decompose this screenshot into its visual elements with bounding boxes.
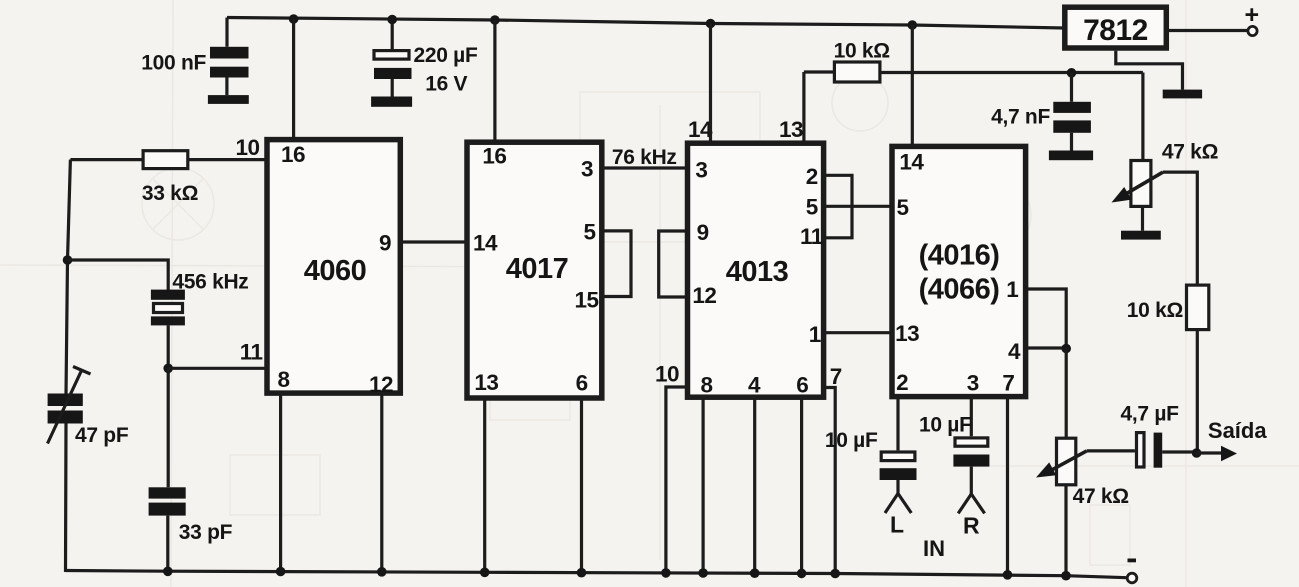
- label Saida: [1208, 418, 1267, 443]
- wire U3 loop pins 9-12: [659, 231, 688, 297]
- junction bottom rail U3 pin6: [797, 569, 807, 579]
- label 4,7 uF: [1121, 403, 1180, 426]
- junction top rail A: [289, 14, 299, 24]
- U4 pin label 1: [1006, 277, 1018, 302]
- junction bottom rail 33pF: [163, 567, 173, 577]
- wire P2 wiper to C out: [1087, 449, 1135, 452]
- svg-text:2: 2: [806, 164, 818, 189]
- wire U4 pin7 down: [1006, 396, 1009, 575]
- svg-text:3: 3: [695, 158, 707, 183]
- svg-text:11: 11: [800, 224, 823, 249]
- svg-text:7: 7: [830, 364, 842, 389]
- U1 pin label 9: [379, 231, 391, 256]
- U1 pin label 16: [281, 142, 305, 167]
- svg-text:100 nF: 100 nF: [141, 52, 206, 75]
- terminal - (open circle): [1127, 573, 1137, 583]
- junction pin1/pin4 node: [1061, 344, 1071, 354]
- svg-text:3: 3: [581, 157, 593, 182]
- wire U1 pin 12 down: [380, 394, 383, 572]
- junction bottom rail U3 pin4: [750, 568, 760, 578]
- svg-text:IN: IN: [923, 536, 945, 561]
- wire U4 pin1 right and down: [1024, 289, 1066, 349]
- wire U1 pin 11: [168, 367, 266, 370]
- U3 pin label 12: [692, 283, 716, 308]
- wire U1 pin 8 down: [279, 394, 282, 572]
- IC U3 4013: [688, 143, 824, 397]
- wire left vertical branch: [66, 160, 71, 572]
- svg-text:R: R: [963, 513, 980, 539]
- label 4,7 nF: [991, 106, 1050, 129]
- wire 10k line corner down to P1: [1141, 73, 1144, 162]
- svg-text:10 µF: 10 µF: [919, 414, 972, 437]
- label IN: [923, 536, 945, 561]
- svg-text:220 µF: 220 µF: [414, 44, 478, 67]
- junction bottom rail U2 pin13: [480, 568, 490, 578]
- IC U2 4017: [467, 142, 602, 398]
- svg-text:4,7 µF: 4,7 µF: [1121, 403, 1180, 426]
- wire U4 pin14 to rail: [911, 25, 914, 147]
- wire U3 pin7 down: [823, 388, 835, 574]
- wire U3 loop pins 2-11: [823, 175, 852, 238]
- junction left branch: [63, 255, 73, 265]
- svg-text:12: 12: [692, 283, 716, 308]
- label 76 kHz: [612, 146, 677, 169]
- label minus: [1128, 559, 1137, 563]
- label 220 uF 16 V: [414, 44, 478, 96]
- resistor R1 33 kOhm: [70, 151, 266, 169]
- svg-text:5: 5: [897, 195, 909, 220]
- wire U4 pin4 right: [1024, 346, 1066, 349]
- capacitor 220 uF electrolytic: [374, 20, 412, 97]
- svg-text:7: 7: [1002, 371, 1014, 396]
- svg-text:11: 11: [240, 340, 263, 365]
- wire U3 pin1 to U4 pin13: [823, 331, 893, 334]
- label 10 uF (R): [919, 414, 972, 437]
- label 33 pF: [179, 521, 233, 544]
- wire U2 loop pins 5-15: [601, 231, 631, 297]
- resistor R3 10 kOhm: [1187, 285, 1209, 330]
- wire U2 pin6 down: [580, 398, 583, 573]
- label R: [963, 513, 980, 539]
- wire node down to P2: [1065, 349, 1068, 440]
- trimmer capacitor 47 pF: [48, 367, 91, 444]
- U1 pin label 10: [236, 135, 260, 160]
- wire U3 pin4 down: [753, 397, 756, 574]
- U2 pin label 6: [576, 371, 588, 396]
- U3 pin label 7: [830, 364, 842, 389]
- svg-text:4060: 4060: [304, 255, 367, 287]
- svg-text:4,7 nF: 4,7 nF: [991, 106, 1050, 129]
- wire U3 pin5 to U4 pin5: [823, 205, 893, 208]
- junction top rail B: [387, 15, 397, 25]
- label 456 kHz: [172, 271, 248, 294]
- svg-text:16: 16: [482, 144, 506, 169]
- wire R3 down to output node: [1196, 330, 1199, 453]
- label 47 kOhm (P1): [1162, 141, 1218, 164]
- svg-text:L: L: [890, 512, 904, 538]
- label +: [1245, 1, 1260, 29]
- wire U3 pin13 up to R2: [802, 72, 805, 144]
- wire U2 pin3 to U3 pin3 (76 kHz): [601, 166, 689, 169]
- svg-text:Saída: Saída: [1208, 418, 1267, 443]
- junction bottom rail U3 pin7: [830, 569, 840, 579]
- wire 7812 output to + terminal: [1166, 29, 1247, 32]
- wire U3 pin6 down: [800, 397, 803, 574]
- U2 pin label 13: [474, 370, 498, 395]
- wire U1 pin16 to rail: [292, 19, 295, 140]
- svg-text:4017: 4017: [506, 253, 569, 285]
- wire U3 pin8 down: [701, 397, 704, 574]
- U4 pin label 13: [895, 321, 919, 346]
- svg-text:12: 12: [369, 372, 393, 397]
- U2 pin label 15: [575, 288, 599, 313]
- U3 pin label 6: [796, 373, 808, 398]
- svg-text:4: 4: [1008, 339, 1021, 364]
- capacitor 100 nF: [210, 18, 249, 96]
- wire P1 wiper down to R3: [1163, 172, 1197, 285]
- wire bottom rail: [66, 571, 1127, 578]
- ground (7812): [1163, 90, 1202, 99]
- U3 pin label 5: [806, 194, 818, 219]
- U4 pin label 3: [967, 371, 979, 396]
- svg-text:1: 1: [1006, 277, 1018, 302]
- IC U5 7812 regulator: [1065, 7, 1167, 48]
- svg-text:1: 1: [809, 322, 821, 347]
- U4 pin label 14: [899, 150, 924, 175]
- potentiometer P1 47 kOhm: [1112, 161, 1164, 231]
- U3 pin label 11: [800, 224, 823, 249]
- svg-text:10: 10: [655, 362, 679, 387]
- junction bottom rail U2 pin6: [577, 568, 587, 578]
- resistor R2 10 kOhm: [804, 62, 1143, 82]
- wire +V top rail: [227, 18, 1064, 29]
- label 10 uF (L): [825, 429, 878, 452]
- svg-text:(4066): (4066): [919, 274, 1000, 306]
- U3 pin label 4: [748, 373, 761, 398]
- U3 pin label 2: [806, 164, 818, 189]
- svg-text:33 pF: 33 pF: [179, 521, 233, 544]
- IC U4 4016/4066: [892, 146, 1026, 396]
- junction top rail D: [706, 19, 716, 29]
- capacitor 10 uF (R channel): [953, 396, 989, 496]
- potentiometer P2 47 kOhm: [1036, 438, 1087, 576]
- junction bottom rail U4 pin7: [1003, 570, 1013, 580]
- svg-text:+: +: [1245, 1, 1260, 29]
- wire U3 pin10 down: [666, 387, 688, 573]
- svg-text:16: 16: [281, 142, 305, 167]
- svg-text:6: 6: [796, 373, 808, 398]
- svg-text:15: 15: [575, 288, 599, 313]
- svg-text:5: 5: [584, 220, 596, 245]
- svg-text:8: 8: [701, 373, 713, 398]
- U3 pin label 8: [701, 373, 713, 398]
- wire 7812 ground path: [1116, 51, 1183, 90]
- junction crystal/33pF node: [163, 364, 173, 374]
- wire output arrow Saida: [1197, 446, 1237, 461]
- svg-text:33 kΩ: 33 kΩ: [142, 182, 198, 205]
- U4 pin label 2: [896, 370, 908, 395]
- svg-text:14: 14: [473, 231, 498, 256]
- U4 pin label 4: [1008, 339, 1021, 364]
- svg-text:10 µF: 10 µF: [825, 429, 878, 452]
- junction top rail C: [490, 15, 500, 25]
- U2 pin label 5: [584, 220, 596, 245]
- svg-text:(4016): (4016): [919, 240, 1000, 272]
- junction bottom rail U1 pin8: [276, 567, 286, 577]
- wire U2 pin16 to rail: [493, 20, 496, 143]
- junction bottom rail U3 pin10: [661, 568, 671, 578]
- capacitor 33 pF: [149, 368, 186, 572]
- input terminal R (crow's foot): [958, 494, 984, 513]
- ground (P1): [1121, 231, 1161, 240]
- label 10 kOhm (R3): [1127, 299, 1183, 322]
- svg-text:47 kΩ: 47 kΩ: [1162, 141, 1218, 164]
- U3 pin label 9: [697, 220, 709, 245]
- svg-text:10 kΩ: 10 kΩ: [834, 40, 890, 63]
- label 33 kOhm: [142, 182, 198, 205]
- wire U1 pin9 to U2 pin14: [400, 240, 468, 243]
- wire U2 pin13 down: [483, 398, 486, 572]
- terminal + (open circle): [1248, 26, 1257, 35]
- U2 pin label 16: [482, 144, 506, 169]
- U2 pin label 14: [473, 231, 498, 256]
- U3 pin label 1: [809, 322, 821, 347]
- ground (100 nF): [208, 95, 249, 104]
- U2 pin label 3: [581, 157, 593, 182]
- ground (220 uF): [371, 97, 412, 107]
- U1 pin label 11: [240, 340, 263, 365]
- label 10 kOhm (R2): [834, 40, 890, 63]
- svg-text:13: 13: [895, 321, 919, 346]
- U3 pin label 14: [688, 117, 713, 142]
- svg-text:7812: 7812: [1083, 14, 1148, 47]
- ground (4,7 nF): [1049, 151, 1093, 161]
- svg-text:6: 6: [576, 371, 588, 396]
- capacitor 10 uF (L channel): [880, 396, 917, 496]
- input terminal L (crow's foot): [885, 494, 911, 514]
- svg-text:9: 9: [379, 231, 391, 256]
- svg-text:5: 5: [806, 194, 818, 219]
- label 100 nF: [141, 52, 206, 75]
- junction bottom rail P2: [1061, 571, 1071, 581]
- U3 pin label 3: [695, 158, 707, 183]
- crystal XT1 456 kHz: [151, 290, 185, 369]
- svg-text:9: 9: [697, 220, 709, 245]
- capacitor 4,7 nF: [1053, 73, 1091, 151]
- svg-text:13: 13: [779, 117, 803, 142]
- capacitor 4,7 uF output: [1137, 433, 1197, 468]
- junction 4,7nF node: [1067, 68, 1077, 78]
- svg-text:47 kΩ: 47 kΩ: [1073, 485, 1129, 508]
- svg-text:14: 14: [899, 150, 924, 175]
- svg-text:13: 13: [474, 370, 498, 395]
- svg-text:47 pF: 47 pF: [75, 424, 129, 447]
- svg-text:456 kHz: 456 kHz: [172, 271, 248, 294]
- svg-text:10: 10: [236, 135, 260, 160]
- svg-text:10 kΩ: 10 kΩ: [1127, 299, 1183, 322]
- svg-text:4: 4: [748, 373, 761, 398]
- svg-text:16 V: 16 V: [425, 73, 467, 96]
- svg-text:3: 3: [967, 371, 979, 396]
- label 47 kOhm (P2): [1073, 485, 1129, 508]
- IC U1 4060: [267, 140, 400, 394]
- svg-text:2: 2: [896, 370, 908, 395]
- wire junction to crystal: [68, 260, 169, 291]
- U3 pin label 13: [779, 117, 803, 142]
- wire U3 pin14 to rail: [709, 24, 712, 145]
- junction top rail E: [908, 20, 918, 30]
- U4 pin label 5: [897, 195, 909, 220]
- svg-text:4013: 4013: [726, 256, 789, 288]
- U4 pin label 7: [1002, 371, 1014, 396]
- label 47 pF: [75, 424, 129, 447]
- U3 pin label 10: [655, 362, 679, 387]
- U1 pin label 12: [369, 372, 393, 397]
- svg-text:76 kHz: 76 kHz: [612, 146, 677, 169]
- junction bottom rail U1 pin12: [377, 567, 387, 577]
- label L: [890, 512, 904, 538]
- svg-text:8: 8: [278, 367, 290, 392]
- junction bottom rail U3 pin8: [698, 568, 708, 578]
- U1 pin label 8: [278, 367, 290, 392]
- junction output node: [1192, 448, 1202, 458]
